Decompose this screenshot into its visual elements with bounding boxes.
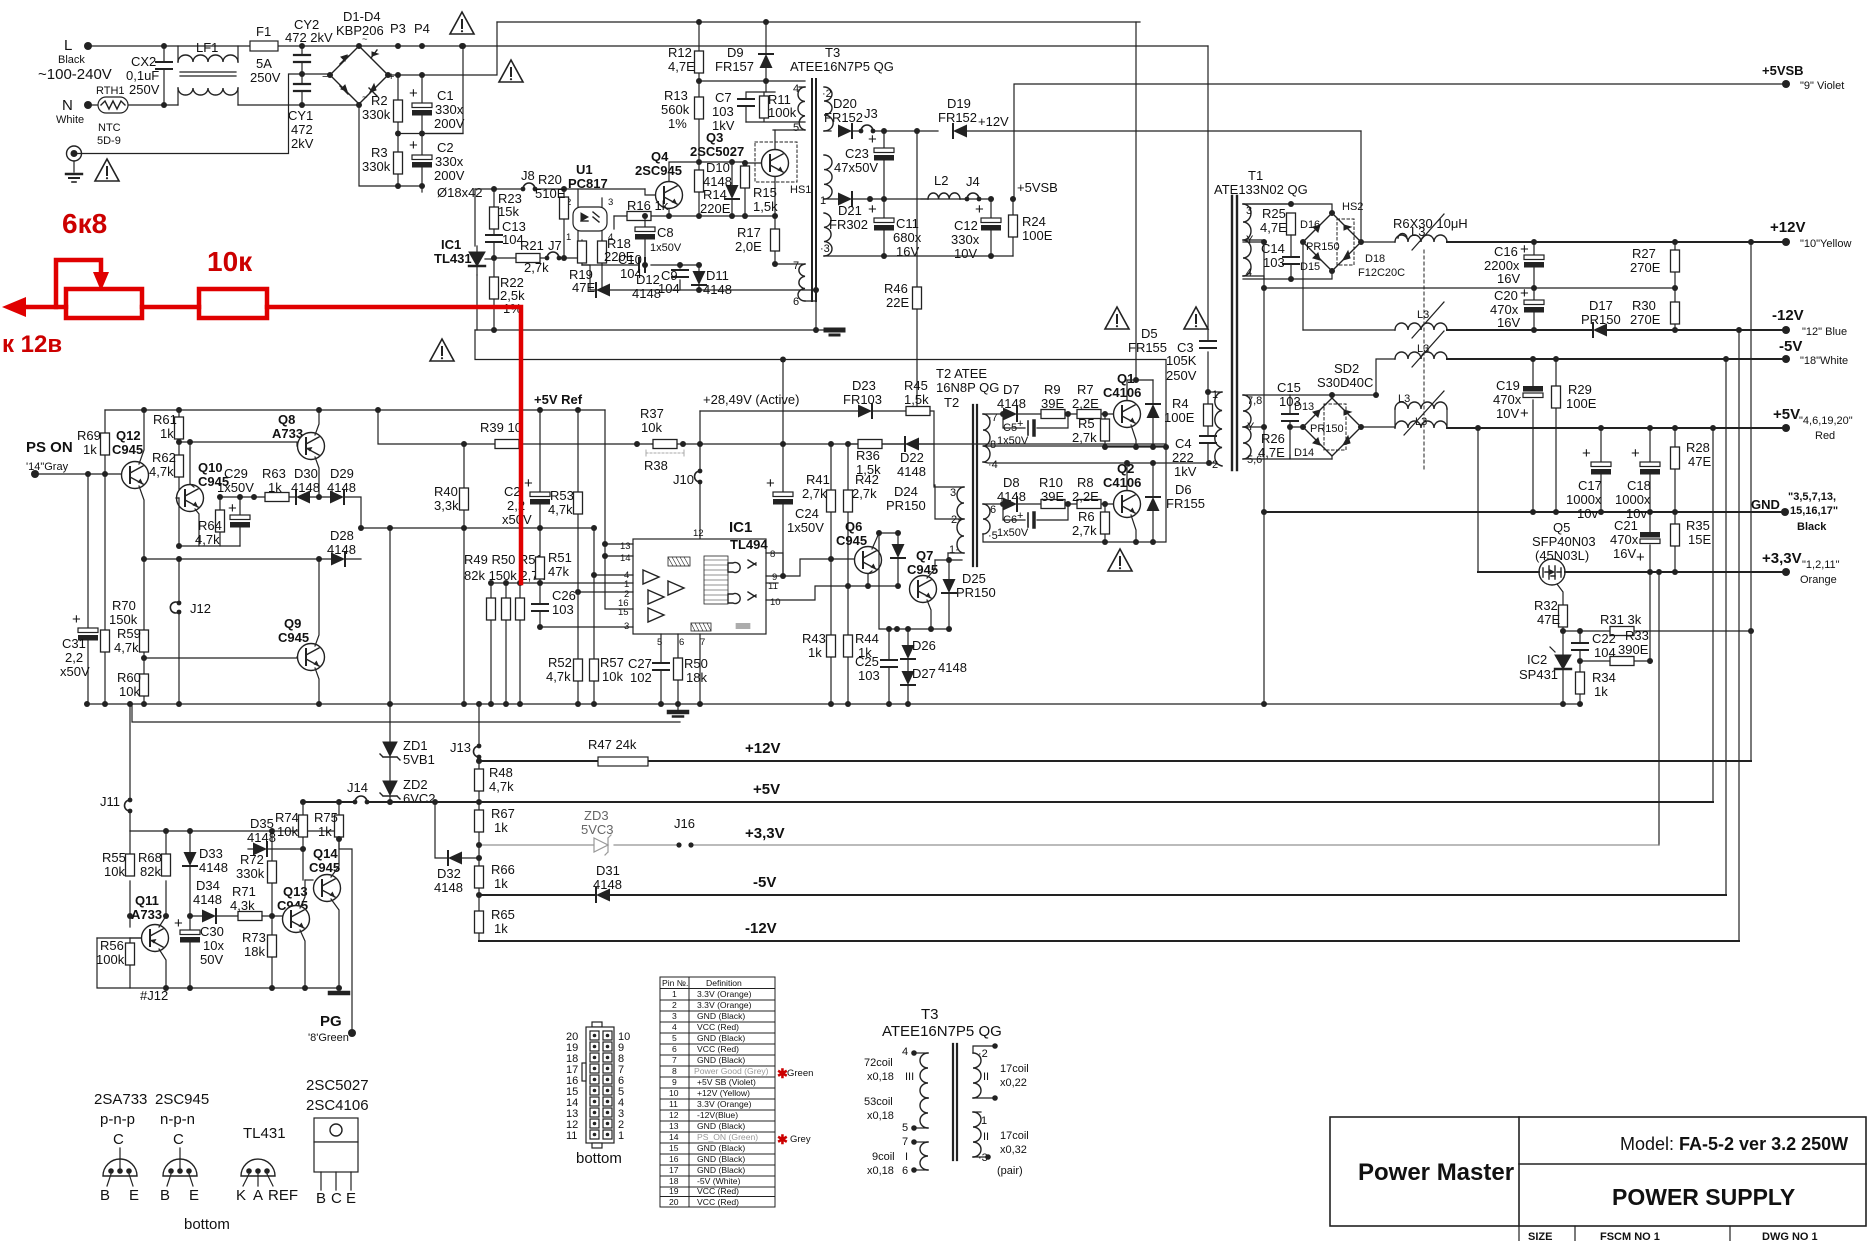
svg-text:R52: R52 [548, 655, 572, 670]
wire +5V to terminal [1447, 427, 1786, 429]
svg-text:-12V: -12V [1772, 307, 1804, 324]
svg-text:PC817: PC817 [568, 176, 608, 191]
svg-text:+: + [868, 131, 877, 148]
svg-text:C945: C945 [309, 860, 340, 875]
wire PG gnd row [97, 938, 339, 988]
svg-text:D6: D6 [1175, 482, 1192, 497]
svg-text:LF1: LF1 [196, 40, 218, 55]
svg-text:R64: R64 [198, 518, 222, 533]
svg-text:B: B [100, 1187, 110, 1204]
svg-text:4: 4 [902, 1046, 908, 1058]
svg-text:"18"White: "18"White [1800, 355, 1848, 367]
svg-text:R50: R50 [684, 656, 708, 671]
ground symbol [330, 991, 348, 996]
diode D22 4148 [905, 437, 919, 451]
svg-text:SP431: SP431 [1519, 667, 1558, 682]
svg-text:x50V: x50V [60, 664, 90, 679]
T3d secondary II [992, 1043, 998, 1049]
svg-text:D8: D8 [1003, 475, 1020, 490]
svg-text:8: 8 [672, 1066, 677, 1076]
svg-text:4148: 4148 [291, 480, 320, 495]
svg-text:C23: C23 [845, 146, 869, 161]
svg-text:330x: 330x [951, 232, 980, 247]
svg-text:C12: C12 [954, 218, 978, 233]
svg-text:T1: T1 [1248, 168, 1263, 183]
svg-text:16V: 16V [1497, 271, 1520, 286]
svg-text:C16: C16 [1494, 244, 1518, 259]
resistor R32 47E [1557, 584, 1563, 631]
svg-text:+: + [409, 85, 418, 102]
node +12V terminal [1782, 238, 1790, 246]
svg-text:'14"Gray: '14"Gray [26, 461, 69, 473]
resistor R72 330k [271, 831, 273, 916]
svg-text:7: 7 [902, 1136, 908, 1148]
wire T1 aux Y row [1243, 242, 1303, 427]
diode D10 4148 [731, 162, 733, 216]
svg-text:KBP206: KBP206 [336, 23, 384, 38]
svg-text:N: N [62, 97, 73, 114]
svg-text:4148: 4148 [593, 877, 622, 892]
svg-text:GND (Black): GND (Black) [697, 1154, 745, 1164]
resistor R66 1k [478, 845, 480, 895]
svg-text:11: 11 [669, 1099, 678, 1109]
svg-text:+: + [72, 611, 81, 628]
svg-text:Q6: Q6 [845, 519, 862, 534]
svg-text:R9: R9 [1044, 382, 1061, 397]
svg-text:x50V: x50V [502, 512, 532, 527]
svg-text:1x50V: 1x50V [650, 242, 682, 254]
node P4 [419, 43, 425, 49]
svg-text:D10: D10 [706, 160, 730, 175]
svg-text:1x50V: 1x50V [787, 520, 824, 535]
wire TL431 column [475, 189, 477, 330]
svg-text:R68: R68 [138, 850, 162, 865]
svg-text:1: 1 [981, 1115, 987, 1127]
svg-text:5: 5 [902, 1122, 908, 1134]
svg-text:PR150: PR150 [956, 585, 996, 600]
svg-text:200V: 200V [434, 116, 465, 131]
svg-text:14: 14 [669, 1132, 679, 1142]
svg-text:82k: 82k [140, 864, 161, 879]
svg-text:10V: 10V [1496, 406, 1519, 421]
svg-text:HS1: HS1 [790, 184, 811, 196]
warning triangle [430, 339, 454, 361]
wire feedback top row [475, 330, 1166, 360]
svg-text:(45N03L): (45N03L) [1535, 548, 1589, 563]
svg-text:GND (Black): GND (Black) [697, 1011, 745, 1021]
warning triangle [450, 12, 474, 34]
svg-text:10v: 10v [1577, 506, 1598, 521]
svg-text:R30: R30 [1632, 298, 1656, 313]
wire pin4 row [594, 528, 633, 575]
svg-text:15: 15 [669, 1143, 679, 1153]
svg-text:1000x: 1000x [1615, 492, 1651, 507]
svg-text:2,2: 2,2 [65, 650, 83, 665]
svg-text:J7: J7 [548, 238, 562, 253]
title block frame [1330, 1117, 1866, 1226]
diode D29 4148 [330, 490, 344, 504]
wire emitter row [179, 545, 240, 547]
svg-text:D13: D13 [1294, 401, 1314, 413]
svg-text:R29: R29 [1568, 382, 1592, 397]
svg-text:3: 3 [608, 197, 613, 208]
svg-text:3.3V (Orange): 3.3V (Orange) [697, 1000, 752, 1010]
resistor R14 220E [698, 162, 700, 216]
svg-text:TL431: TL431 [243, 1125, 286, 1142]
svg-text:D33: D33 [199, 846, 223, 861]
svg-text:Power Good (Grey): Power Good (Grey) [694, 1066, 769, 1076]
svg-text:GND (Black): GND (Black) [697, 1165, 745, 1175]
resistor R40 3,3k [463, 444, 465, 704]
svg-text:NTC: NTC [98, 122, 121, 134]
svg-text:104: 104 [658, 281, 680, 296]
svg-text:47E: 47E [1688, 454, 1711, 469]
svg-text:R66: R66 [491, 862, 515, 877]
wire T1 aux pin4 row [1243, 271, 1332, 279]
svg-text:4,7E: 4,7E [668, 59, 695, 74]
svg-text:−: − [322, 71, 328, 83]
bottom row partial [1518, 1226, 1520, 1241]
wire -5V low rail [479, 894, 1726, 896]
svg-text:ZD1: ZD1 [403, 738, 428, 753]
svg-text:5VC3: 5VC3 [581, 822, 614, 837]
svg-text:17coil: 17coil [1000, 1063, 1029, 1075]
svg-text:R55: R55 [102, 850, 126, 865]
svg-text:3.3V (Orange): 3.3V (Orange) [697, 989, 752, 999]
svg-text:FR157: FR157 [715, 59, 754, 74]
svg-text:D28: D28 [330, 528, 354, 543]
resistor R37 10k [653, 440, 677, 449]
wire +12V to terminal [1447, 241, 1786, 243]
svg-text:1,5k: 1,5k [753, 199, 778, 214]
capacitor C4 222 1kV [1200, 435, 1216, 437]
svg-text:1x50V: 1x50V [217, 480, 254, 495]
svg-text:1·: 1· [949, 544, 959, 556]
svg-text:ZD2: ZD2 [403, 777, 428, 792]
svg-text:R65: R65 [491, 907, 515, 922]
svg-text:IC1: IC1 [729, 519, 752, 536]
svg-text:100k: 100k [768, 105, 797, 120]
wire Y tap to gnd [1243, 427, 1264, 704]
svg-text:53coil: 53coil [864, 1096, 893, 1108]
svg-text:C945: C945 [907, 562, 938, 577]
node -5V terminal [1782, 355, 1790, 363]
wire R39 row start [378, 410, 652, 444]
svg-text:+5V Ref: +5V Ref [534, 392, 583, 407]
node +5VSB [988, 196, 994, 202]
svg-text:Definition: Definition [706, 978, 742, 988]
svg-text:472: 472 [291, 122, 313, 137]
svg-text:R53: R53 [550, 488, 574, 503]
svg-text:R27: R27 [1632, 246, 1656, 261]
wire 7,8 line ext [1290, 394, 1376, 396]
svg-text:13: 13 [620, 541, 631, 552]
svg-text:REF: REF [268, 1187, 298, 1204]
svg-text:R6: R6 [1078, 509, 1095, 524]
svg-text:Power Master: Power Master [1358, 1159, 1514, 1186]
svg-text:330k: 330k [362, 107, 391, 122]
svg-text:R41: R41 [806, 472, 830, 487]
svg-text:4,7k: 4,7k [195, 532, 220, 547]
resistor R35 15E [1674, 512, 1676, 572]
svg-text:C19: C19 [1496, 378, 1520, 393]
wire T2 pin1 row [935, 553, 962, 560]
svg-text:250V: 250V [1166, 368, 1197, 383]
svg-text:R28: R28 [1686, 440, 1710, 455]
svg-text:bottom: bottom [576, 1150, 622, 1167]
svg-text:3,3k: 3,3k [434, 498, 459, 513]
wire +12V sense [1750, 242, 1752, 761]
svg-text:+5V: +5V [1773, 406, 1800, 423]
svg-text:-12V(Blue): -12V(Blue) [697, 1110, 738, 1120]
svg-text:R71: R71 [232, 884, 256, 899]
capacitor C12 330x 10V [990, 199, 992, 256]
svg-text:A733: A733 [131, 907, 162, 922]
svg-text:C11: C11 [896, 216, 919, 231]
svg-text:4,7k: 4,7k [546, 669, 571, 684]
svg-text:5A: 5A [256, 56, 272, 71]
node +3,3V terminal [1782, 568, 1790, 576]
svg-text:D21: D21 [838, 203, 862, 218]
svg-text:3: 3 [1246, 205, 1252, 217]
svg-text:R32: R32 [1534, 598, 1558, 613]
svg-text:D27: D27 [912, 666, 936, 681]
svg-text:VCC (Red): VCC (Red) [697, 1197, 739, 1207]
svg-text:U1: U1 [576, 162, 593, 177]
svg-text:4148: 4148 [199, 860, 228, 875]
wire L line [88, 45, 1208, 47]
wire doubler link [422, 46, 463, 134]
svg-text:D17: D17 [1589, 298, 1613, 313]
svg-text:R34: R34 [1592, 670, 1616, 685]
svg-text:D14: D14 [1294, 447, 1314, 459]
wire primary return [475, 329, 835, 331]
svg-text:"9" Violet: "9" Violet [1800, 80, 1844, 92]
T2 secondary top 7-8-4 [983, 414, 990, 462]
wire secondary gnd spur [132, 704, 680, 722]
resistor R33 390E row [1580, 660, 1650, 662]
resistor R11 100k [746, 92, 805, 122]
svg-text:C8: C8 [657, 225, 674, 240]
svg-text:+: + [1017, 418, 1023, 430]
resistor R43 1k [827, 635, 836, 657]
svg-text:D30: D30 [294, 466, 318, 481]
svg-text:+: + [1017, 510, 1023, 522]
svg-text:C26: C26 [552, 588, 576, 603]
svg-text:1%: 1% [668, 116, 687, 131]
svg-text:+: + [1520, 405, 1529, 422]
zener ZD3 5VC3 ghost [594, 835, 611, 855]
svg-text:~: ~ [362, 34, 368, 45]
svg-text:10k: 10k [277, 824, 298, 839]
svg-text:C5: C5 [1003, 422, 1017, 434]
svg-text:18k: 18k [244, 944, 265, 959]
svg-text:J10: J10 [673, 472, 694, 487]
svg-text:270E: 270E [1630, 312, 1661, 327]
jumper J4 [965, 193, 982, 201]
svg-text:II: II [983, 1071, 989, 1083]
warning triangles [1105, 307, 1129, 329]
svg-text:R73: R73 [242, 930, 266, 945]
svg-text:17: 17 [669, 1165, 679, 1175]
svg-text:C17: C17 [1578, 478, 1602, 493]
svg-text:PG: PG [320, 1013, 342, 1030]
svg-text:14: 14 [620, 553, 631, 564]
jumper J11 [129, 704, 131, 831]
svg-text:4,7E: 4,7E [1260, 220, 1287, 235]
wire +5V low rail [303, 801, 1713, 803]
svg-text:1k: 1k [160, 426, 174, 441]
svg-text:4148: 4148 [327, 480, 356, 495]
svg-text:1k: 1k [268, 480, 282, 495]
resistor R31 3k row [1563, 630, 1751, 632]
jumper J16 [676, 842, 681, 847]
svg-text:17coil: 17coil [1000, 1130, 1029, 1142]
resistor R41 2,7k [830, 444, 832, 704]
svg-text:R62: R62 [152, 450, 176, 465]
node -12V terminal [1782, 326, 1790, 334]
svg-text:1: 1 [820, 195, 826, 207]
svg-text:C18: C18 [1627, 478, 1651, 493]
svg-text:+: + [409, 137, 418, 154]
resistor R25 4,7E [1287, 213, 1296, 235]
svg-text:+28,49V (Active): +28,49V (Active) [703, 392, 799, 407]
svg-text:5: 5 [672, 1033, 677, 1043]
svg-text:1k: 1k [318, 824, 332, 839]
resistor R50 18k [677, 634, 679, 712]
wire gnd mid row [1264, 287, 1675, 289]
svg-text:C: C [113, 1131, 124, 1148]
pot bracket red [56, 260, 101, 307]
wire SD2 to +5V rail [1361, 426, 1395, 428]
svg-text:R61: R61 [153, 412, 177, 427]
svg-text:1k: 1k [808, 645, 822, 660]
svg-text:C2: C2 [437, 140, 454, 155]
svg-text:D18: D18 [1365, 253, 1385, 265]
resistor R13 560k 1% [698, 81, 700, 162]
svg-text:F1: F1 [256, 24, 271, 39]
resistor R60 10k [143, 658, 145, 704]
svg-text:Q14: Q14 [313, 846, 338, 861]
svg-text:4,7k: 4,7k [489, 779, 514, 794]
svg-text:R10: R10 [1039, 475, 1063, 490]
resistor R18 220E [601, 240, 603, 290]
svg-text:C: C [331, 1190, 342, 1207]
resistor 10k red [199, 289, 267, 318]
resistor R44 1k [844, 635, 853, 657]
resistor R38 ghost [646, 450, 684, 456]
svg-text:39E: 39E [1041, 489, 1064, 504]
svg-text:TL494: TL494 [730, 537, 768, 552]
svg-text:PR150: PR150 [886, 498, 926, 513]
capacitor C18 1000x 10v [1649, 428, 1651, 512]
svg-text:(pair): (pair) [997, 1165, 1023, 1177]
svg-text:·2: ·2 [822, 88, 832, 100]
capacitor C16 2200x 16V [1533, 242, 1535, 288]
svg-text:R57: R57 [600, 655, 624, 670]
svg-text:C7: C7 [715, 90, 732, 105]
svg-text:+: + [1520, 241, 1529, 258]
svg-text:E: E [346, 1190, 356, 1207]
capacitor C5 1x50V [1003, 414, 1068, 428]
svg-text:R36: R36 [856, 448, 880, 463]
resistor R22 2,5k 1% [493, 258, 495, 330]
svg-text:2,7k: 2,7k [802, 486, 827, 501]
svg-text:4148: 4148 [997, 396, 1026, 411]
wire pin7 [699, 634, 701, 704]
svg-text:C6: C6 [1003, 514, 1017, 526]
svg-text:✱: ✱ [777, 1132, 788, 1147]
svg-text:R39 10: R39 10 [480, 420, 522, 435]
capacitor C11 680x 16V [883, 199, 885, 256]
svg-text:+12V: +12V [978, 114, 1009, 129]
svg-text:FR302: FR302 [829, 217, 868, 232]
svg-text:3.3V (Orange): 3.3V (Orange) [697, 1099, 752, 1109]
svg-text:x0,18: x0,18 [867, 1110, 894, 1122]
wire +12V low rail [479, 760, 1751, 762]
wire emitter row1 [1105, 446, 1166, 448]
svg-text:1,5k: 1,5k [904, 392, 929, 407]
svg-text:2: 2 [672, 1000, 677, 1010]
svg-text:RTH1: RTH1 [96, 85, 125, 97]
svg-text:R13: R13 [664, 88, 688, 103]
capacitor CY1 [301, 74, 303, 105]
svg-text:B: B [160, 1187, 170, 1204]
capacitor C8 1x50V [644, 216, 646, 265]
svg-text:C21: C21 [1614, 518, 1638, 533]
svg-text:100E: 100E [1164, 410, 1195, 425]
svg-text:6: 6 [902, 1165, 908, 1177]
svg-text:R56: R56 [100, 938, 124, 953]
svg-text:C20: C20 [1494, 288, 1518, 303]
resistor R27 270E [1674, 242, 1676, 288]
svg-text:D5: D5 [1141, 326, 1158, 341]
svg-text:0,1uF: 0,1uF [126, 68, 159, 83]
svg-text:GND (Black): GND (Black) [697, 1055, 745, 1065]
svg-text:I: I [905, 1151, 908, 1163]
svg-text:B: B [316, 1190, 326, 1207]
svg-text:39E: 39E [1041, 396, 1064, 411]
svg-text:+: + [1582, 445, 1591, 462]
svg-text:4,7k: 4,7k [149, 464, 174, 479]
svg-text:·2: ·2 [978, 1048, 988, 1060]
svg-text:R75: R75 [314, 810, 338, 825]
svg-text:+12V (Yellow): +12V (Yellow) [697, 1088, 750, 1098]
wire GND rail [1264, 511, 1785, 513]
earth symbol [67, 146, 82, 161]
svg-text:R21: R21 [520, 238, 544, 253]
svg-text:C945: C945 [278, 630, 309, 645]
svg-text:7,8: 7,8 [1247, 395, 1262, 407]
svg-text:-5V: -5V [1779, 338, 1802, 355]
svg-text:+: + [228, 500, 237, 517]
svg-text:Pin №.: Pin №. [662, 978, 688, 988]
svg-text:FR103: FR103 [843, 392, 882, 407]
svg-text:4148: 4148 [193, 892, 222, 907]
svg-text:Grey: Grey [790, 1134, 811, 1145]
jumper J10 [699, 411, 701, 539]
svg-text:3: 3 [672, 1011, 677, 1021]
svg-text:4148: 4148 [703, 174, 732, 189]
svg-text:11: 11 [566, 1130, 577, 1142]
wire pin1 row [491, 582, 633, 584]
svg-text:GND (Black): GND (Black) [697, 1143, 745, 1153]
svg-text:SIZE: SIZE [1528, 1231, 1552, 1241]
svg-text:100k: 100k [96, 952, 125, 967]
resistor R10 39E [1041, 500, 1065, 509]
ATX connector 20pin [592, 1022, 602, 1027]
svg-text:C2: C2 [504, 484, 521, 499]
